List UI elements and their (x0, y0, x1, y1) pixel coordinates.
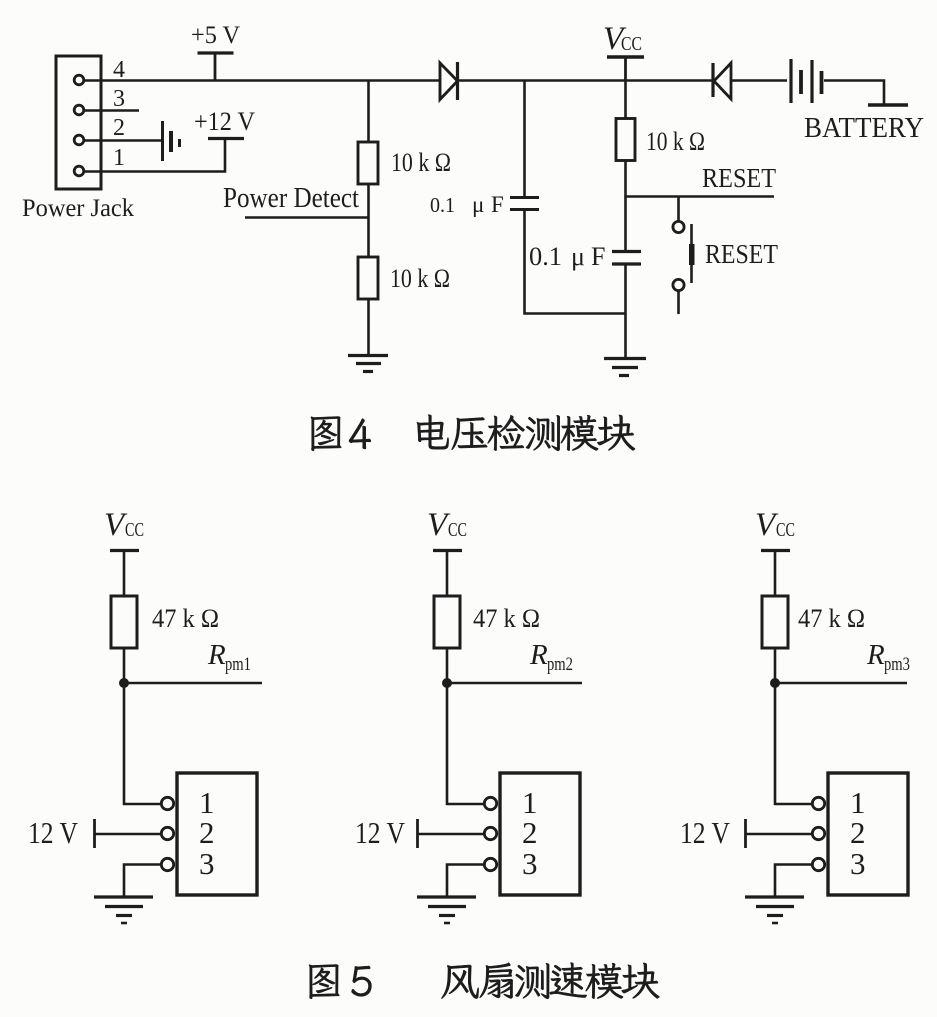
pin 1 circle (fan 2) (484, 797, 496, 809)
wire R1 to node (123, 648, 126, 683)
svg-text:μ: μ (571, 242, 585, 271)
fan circuit 3: power Vcc symbol (761, 549, 790, 552)
wire pin 3 to ground (fan 1) (124, 865, 162, 897)
wire pin 3 to ground (fan 2) (447, 865, 485, 897)
svg-text:12 V: 12 V (28, 815, 79, 850)
wire node Rpm3 (775, 682, 907, 685)
battery BT1 (789, 59, 792, 103)
svg-text:+12 V: +12 V (194, 107, 255, 136)
svg-text:4: 4 (113, 57, 125, 83)
svg-text:47 k Ω: 47 k Ω (798, 604, 865, 633)
caption figure 4 (311, 415, 635, 451)
svg-text:0.1: 0.1 (430, 193, 455, 217)
svg-text:Power Detect: Power Detect (223, 183, 359, 214)
svg-text:2: 2 (199, 815, 215, 850)
svg-text:CC: CC (776, 519, 795, 541)
svg-text:3: 3 (522, 846, 538, 881)
wire pin 3 to ground (fan 3) (775, 865, 813, 897)
svg-text:CC: CC (621, 33, 642, 55)
wire node down to pin 1 (fan 1) (124, 683, 162, 804)
svg-text:47 k Ω: 47 k Ω (473, 604, 540, 633)
ground (fan 2) (417, 895, 476, 898)
switch S1 top contact (673, 221, 684, 232)
wire 12V to pin 2 (fan 1) (95, 833, 162, 836)
battery terminal bar (868, 103, 908, 107)
junction node dot (fan 3) (770, 678, 780, 688)
wire D1 to D2 (Vcc rail) (459, 79, 713, 82)
wire pin1 to +12V riser (84, 138, 225, 172)
switch S1 plunger (690, 224, 693, 283)
pin 3 circle (fan 3) (812, 858, 824, 870)
pin 1 of J1 (74, 166, 84, 176)
wire 12V to pin 2 (fan 3) (746, 833, 813, 836)
pin 1 circle (fan 1) (161, 797, 173, 809)
power +5V symbol (198, 51, 234, 54)
svg-text:0.1: 0.1 (529, 242, 562, 271)
svg-text:Power Jack: Power Jack (22, 195, 134, 222)
svg-text:F: F (491, 192, 504, 217)
wire battery to terminal (824, 81, 884, 105)
pin 2 of J1 (74, 135, 84, 145)
caption figure 5 (309, 963, 659, 999)
wire node Rpm2 (447, 682, 582, 685)
wire node down to pin 1 (fan 3) (775, 683, 813, 804)
wire 12V to pin 2 (fan 2) (418, 833, 485, 836)
svg-text:R: R (529, 639, 548, 671)
ground G2 (604, 357, 646, 360)
wire R1 to node Power Detect (367, 184, 370, 257)
node RESET wire (626, 195, 775, 198)
pin 3 circle (fan 2) (484, 858, 496, 870)
svg-text:pm2: pm2 (547, 654, 573, 675)
power Vcc symbol (fig4) (607, 55, 644, 58)
ground G1 (348, 354, 388, 357)
svg-text:12 V: 12 V (355, 815, 406, 850)
wire rail to resistor R1 (367, 81, 370, 143)
resistor R2 10k (358, 257, 378, 299)
ground (fan 3) (745, 895, 804, 898)
connector J1 Power Jack body (56, 56, 101, 189)
wire R2 to node (446, 648, 449, 683)
wire pin2 to battery B2 (84, 139, 161, 142)
wire R2 to ground (367, 299, 370, 355)
wire C2 to ground (624, 264, 627, 357)
svg-text:R: R (207, 639, 226, 671)
resistor R3 10k (616, 119, 635, 161)
connector box (fan 2) (500, 773, 580, 895)
wire R3 to node (774, 648, 777, 683)
12V terminal bar (fan 1) (93, 819, 96, 848)
svg-text:CC: CC (448, 519, 467, 541)
wire node to C2 (624, 197, 627, 252)
svg-text:3: 3 (199, 846, 215, 881)
battery B2 (12V cell at pin 2) (161, 121, 164, 161)
connector box (fan 1) (177, 773, 257, 895)
switch S1 stub from RESET node (677, 197, 680, 222)
resistor R1 10k (358, 142, 378, 184)
svg-text:R: R (866, 639, 885, 671)
wire D2 to battery BT1 (731, 79, 787, 82)
resistor R1 47k (111, 596, 137, 648)
svg-text:3: 3 (850, 846, 866, 881)
pin 4 of J1 (74, 75, 84, 85)
fan circuit 1: power Vcc symbol (110, 549, 139, 552)
junction node dot (fan 2) (442, 678, 452, 688)
switch S1 bottom contact (673, 279, 684, 290)
pin 3 circle (fan 1) (161, 858, 173, 870)
wire Power Detect lead (245, 216, 369, 219)
switch S1 bottom stub (677, 291, 680, 314)
svg-text:2: 2 (522, 815, 538, 850)
diode D2 (714, 63, 731, 99)
wire node Rpm1 (124, 682, 262, 685)
svg-text:47 k Ω: 47 k Ω (152, 604, 219, 633)
svg-text:F: F (591, 242, 605, 271)
svg-text:1: 1 (113, 145, 125, 171)
svg-text:10 k Ω: 10 k Ω (391, 148, 451, 177)
connector box (fan 3) (828, 773, 908, 895)
svg-text:CC: CC (125, 519, 144, 541)
wire pin3 stub (84, 109, 139, 112)
junction node dot (fan 1) (119, 678, 129, 688)
resistor R2 47k (434, 596, 460, 648)
wire R3 to RESET node (624, 161, 627, 198)
wire node down to pin 1 (fan 2) (447, 683, 485, 804)
power +12V symbol (208, 137, 244, 140)
svg-text:RESET: RESET (702, 163, 776, 193)
svg-text:2: 2 (113, 115, 125, 141)
svg-text:BATTERY: BATTERY (804, 113, 924, 144)
pin 1 circle (fan 3) (812, 797, 824, 809)
pin 3 of J1 (74, 105, 84, 115)
wire Vcc to resistor R3 (624, 81, 627, 119)
capacitor C1 0.1uF (510, 196, 539, 199)
svg-text:10 k Ω: 10 k Ω (390, 264, 450, 293)
svg-text:RESET: RESET (705, 239, 778, 269)
svg-text:+5 V: +5 V (191, 22, 240, 49)
12V terminal bar (fan 2) (416, 819, 419, 848)
svg-text:pm1: pm1 (225, 654, 251, 675)
resistor R3 47k (762, 596, 788, 648)
svg-text:10 k Ω: 10 k Ω (646, 127, 705, 156)
svg-text:μ: μ (472, 192, 484, 217)
pin 2 circle (fan 2) (484, 827, 496, 839)
wire C1 bottom to ground rail (525, 210, 626, 314)
fan circuit 2: power Vcc symbol (433, 549, 462, 552)
svg-text:pm3: pm3 (884, 654, 910, 675)
svg-text:3: 3 (113, 86, 125, 112)
ground (fan 1) (94, 895, 153, 898)
pin 2 circle (fan 3) (812, 827, 824, 839)
pin 2 circle (fan 1) (161, 827, 173, 839)
diode D1 (440, 63, 458, 100)
svg-text:2: 2 (850, 815, 866, 850)
svg-text:12 V: 12 V (680, 815, 731, 850)
capacitor C2 0.1uF (612, 250, 641, 253)
wire junction down to C1 (523, 81, 526, 198)
wire pin4 to diode D1 (+5V rail) (84, 79, 440, 82)
12V terminal bar (fan 3) (744, 819, 747, 848)
